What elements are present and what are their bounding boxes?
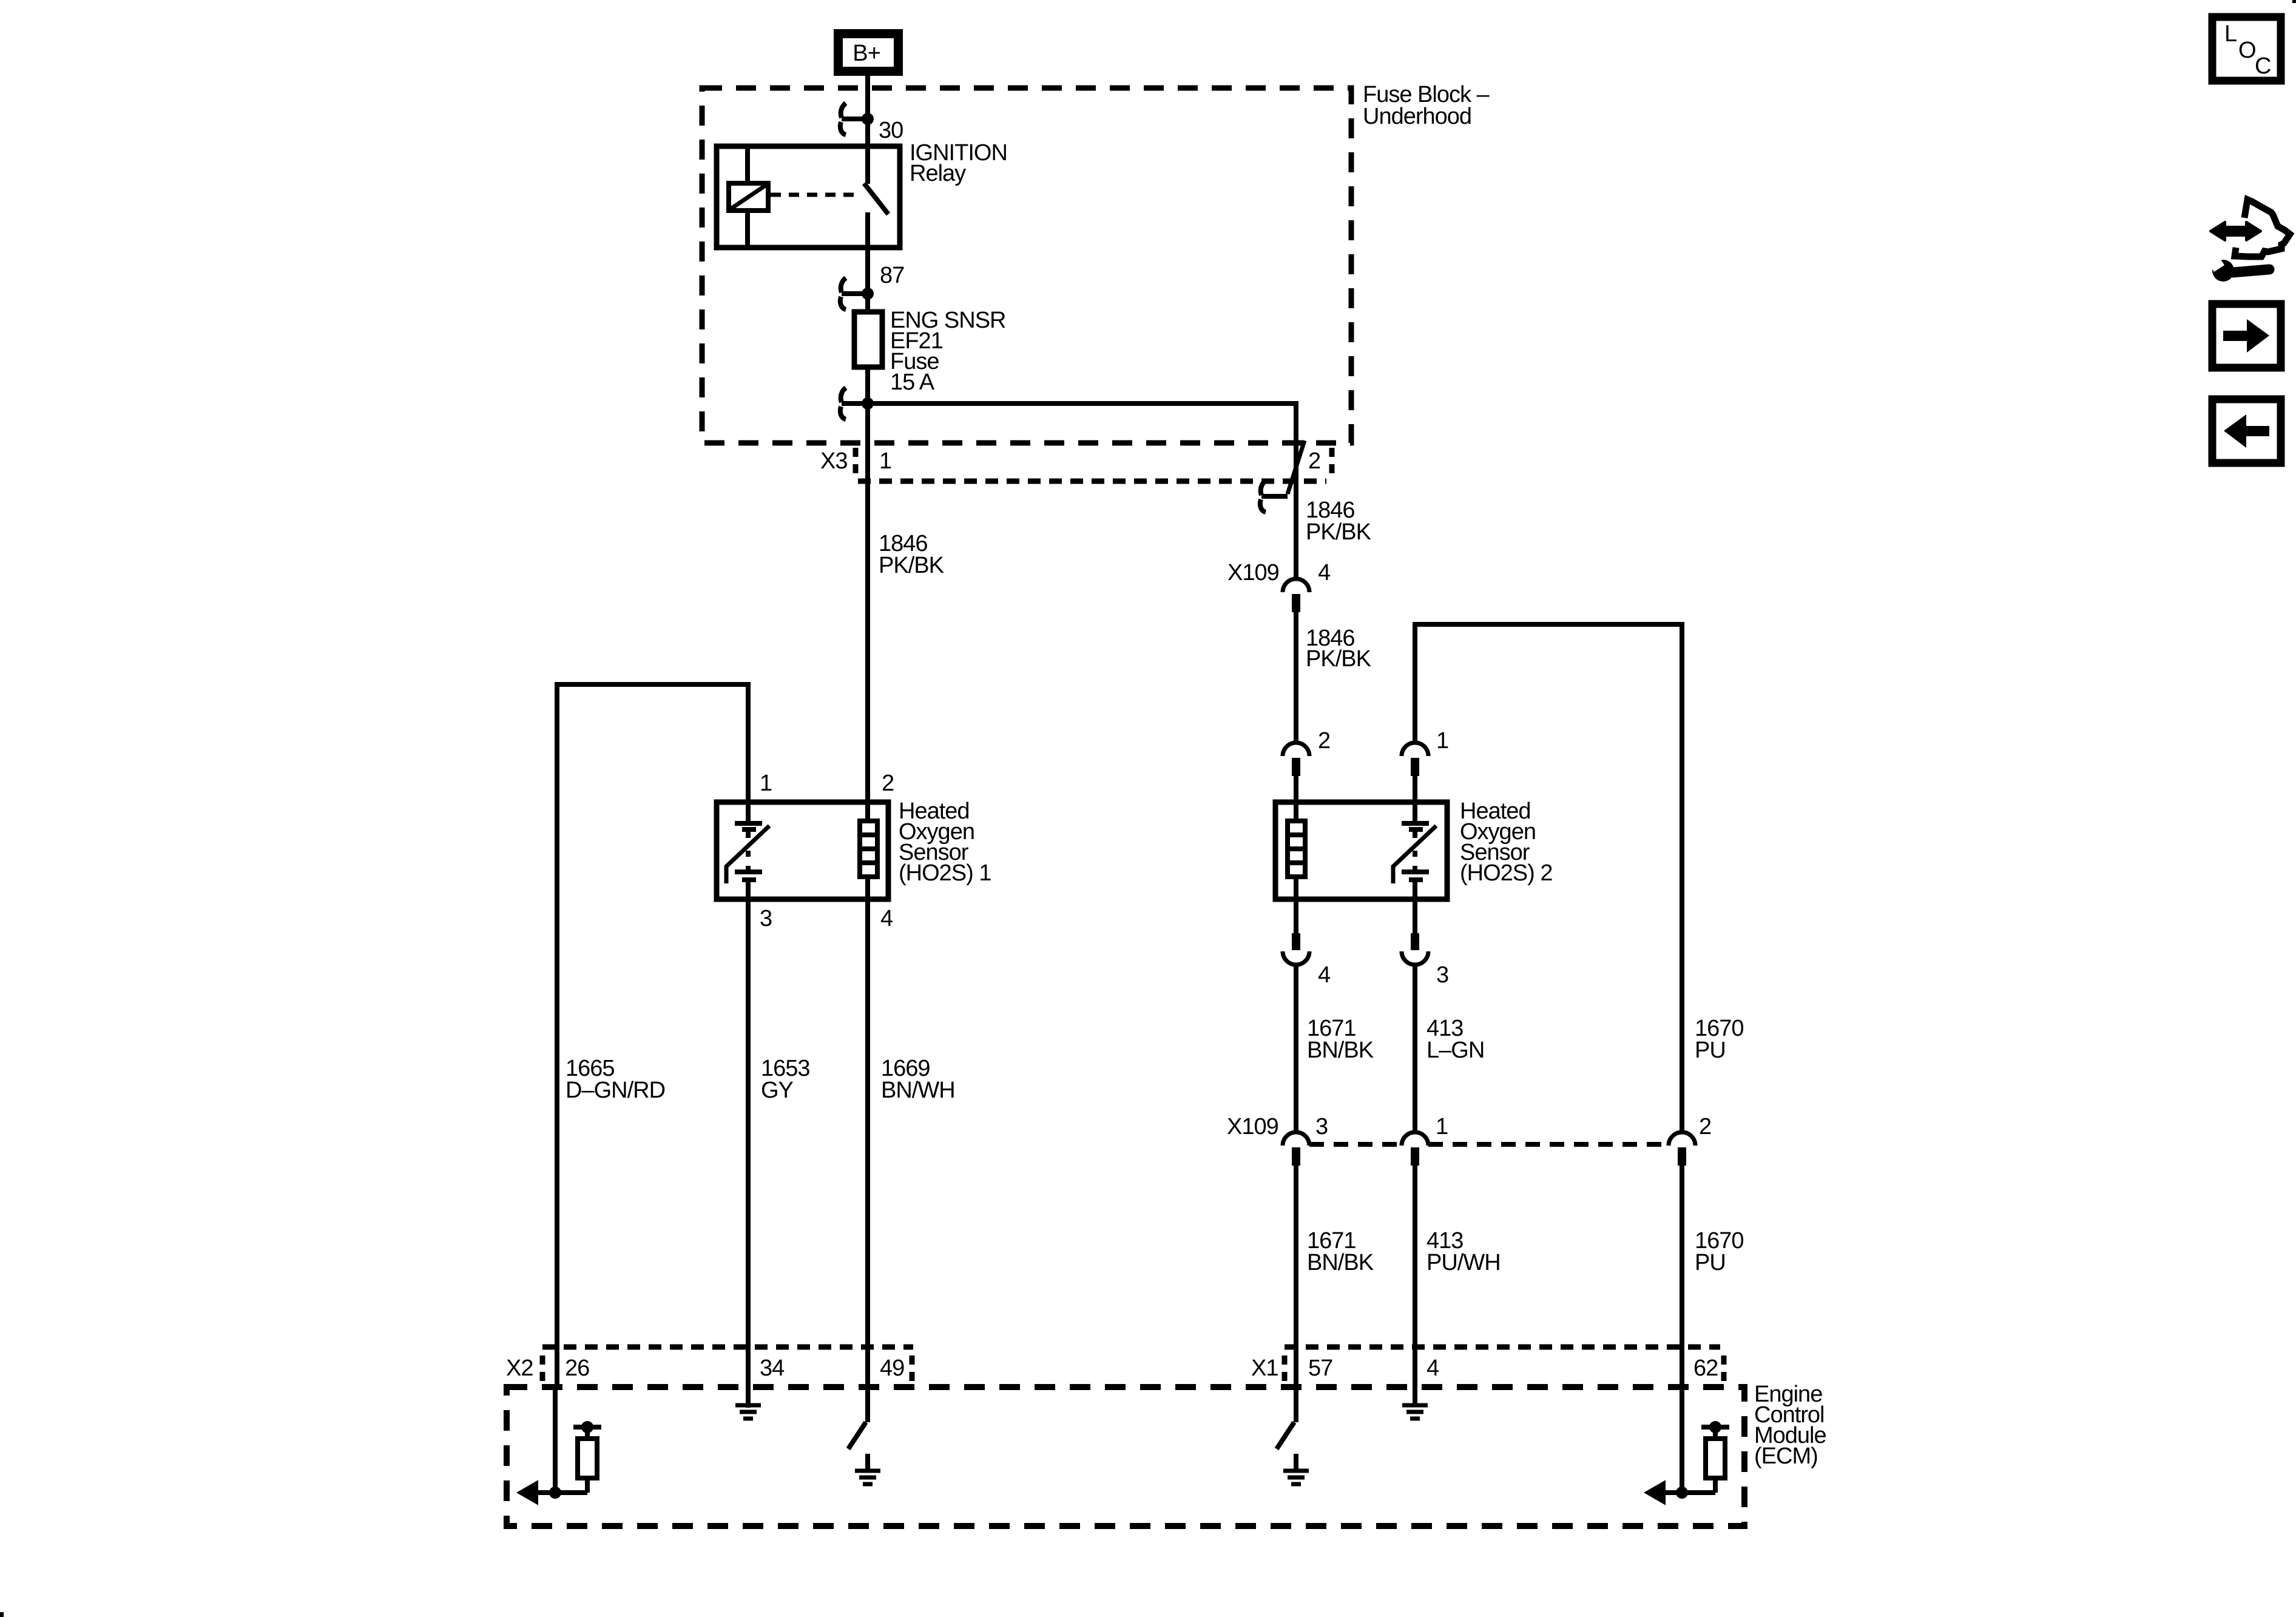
icon LOC box: [2212, 17, 2281, 81]
svg-text:15 A: 15 A: [890, 370, 935, 395]
ECM internal: X2-26 resistor and arrow: [518, 1387, 601, 1504]
wire 1671 upper: [1294, 964, 1298, 1132]
connector pair below HO2S2 pin 4: [1283, 899, 1309, 965]
clip at X3 pin 2: [1260, 481, 1288, 512]
svg-text:L: L: [2224, 21, 2237, 47]
sensor HO2S2 box: [1275, 802, 1447, 899]
svg-text:X109: X109: [1227, 560, 1279, 586]
svg-text:4: 4: [1427, 1355, 1439, 1381]
icon back arrow box: [2212, 399, 2281, 463]
svg-text:X3: X3: [820, 448, 847, 474]
svg-text:X1: X1: [1251, 1355, 1278, 1381]
svg-text:GY: GY: [761, 1078, 794, 1103]
wire fuse output: [865, 367, 870, 802]
ECM internal: ground at X2-34: [735, 1387, 761, 1419]
HO2S2 sensor cell element: [1393, 802, 1436, 899]
connector X2 strip: [542, 1347, 913, 1381]
svg-text:49: 49: [880, 1355, 904, 1381]
svg-text:57: 57: [1308, 1355, 1332, 1381]
connector X109 pin 4 pair: [1283, 579, 1309, 612]
connector pair below HO2S2 pin 3: [1402, 899, 1428, 965]
connector X109 pin 3 pair: [1283, 1132, 1309, 1166]
svg-text:Relay: Relay: [910, 161, 966, 186]
relay U1 IGNITION Relay box: [717, 146, 900, 248]
svg-text:BN/BK: BN/BK: [1307, 1250, 1374, 1275]
HO2S1 heater element: [860, 802, 877, 899]
fuse block - underhood dashed box: [702, 88, 1351, 443]
svg-text:B+: B+: [853, 41, 880, 66]
svg-text:X2: X2: [506, 1355, 533, 1381]
svg-text:4: 4: [1318, 560, 1331, 586]
relay coil feed line: [745, 146, 750, 248]
svg-text:(HO2S) 2: (HO2S) 2: [1460, 860, 1552, 886]
svg-text:C: C: [2255, 53, 2271, 79]
wire 1653 lower run: [746, 899, 751, 1408]
svg-text:PU: PU: [1695, 1250, 1726, 1275]
ECM internal: ground at X1-4: [1402, 1387, 1428, 1419]
svg-text:26: 26: [565, 1355, 589, 1381]
wire 1671 lower: [1294, 1166, 1298, 1422]
svg-text:PU: PU: [1695, 1038, 1726, 1063]
wire 413 lower: [1413, 1166, 1417, 1387]
HO2S2 heater element: [1288, 802, 1305, 899]
svg-text:1: 1: [760, 771, 772, 796]
wire 1670 lower: [1680, 1166, 1684, 1493]
svg-text:Underhood: Underhood: [1363, 104, 1471, 129]
relay coil: [729, 183, 768, 211]
svg-text:2: 2: [882, 771, 894, 796]
relay coil-to-contact dashed link: [771, 193, 862, 197]
sensor HO2S1 box: [717, 802, 888, 899]
icon diagnostics car and wrench: [2206, 200, 2290, 282]
wire B+ to relay pin 30: [865, 76, 870, 184]
fuse ENG SNSR EF21 15A: [854, 312, 882, 367]
svg-text:2: 2: [1699, 1114, 1711, 1139]
svg-text:3: 3: [760, 906, 772, 931]
connector pair at HO2S2 pin 1: [1402, 743, 1428, 776]
battery feed B+: [834, 29, 903, 76]
HO2S1 sensor cell element: [726, 802, 769, 899]
wire 413 upper: [1413, 964, 1417, 1132]
svg-text:34: 34: [760, 1355, 785, 1381]
ECM internal: switch to ground at X2-49: [848, 1422, 880, 1484]
node 87 junction with clip: [840, 278, 868, 309]
svg-text:4: 4: [1318, 962, 1331, 988]
wire left branch 1665 horizontal: [557, 684, 748, 1387]
svg-text:30: 30: [879, 118, 903, 143]
wire stubs into HO2S2: [1296, 776, 1415, 802]
svg-text:2: 2: [1308, 448, 1320, 474]
svg-text:1: 1: [1436, 1114, 1448, 1139]
wire 1669 lower run: [865, 899, 870, 1422]
svg-text:1: 1: [879, 448, 891, 474]
relay switch blade: [864, 183, 888, 214]
connector X109 lower dashed line: [1309, 1142, 1669, 1147]
wire branch to X3 pin 2: [868, 403, 1296, 579]
connector X109 pin 2 pair: [1669, 1132, 1695, 1166]
svg-text:1: 1: [1436, 728, 1448, 754]
svg-text:3: 3: [1436, 962, 1448, 988]
svg-text:PU/WH: PU/WH: [1427, 1250, 1501, 1275]
svg-text:PK/BK: PK/BK: [879, 553, 944, 578]
svg-text:BN/WH: BN/WH: [881, 1078, 955, 1103]
ECM internal: X1-62 resistor and arrow: [1645, 1421, 1729, 1504]
svg-text:87: 87: [880, 263, 904, 288]
page artifact dot top right: [2292, 0, 2296, 3]
wire pass-through slash at X3 pin 2: [1288, 441, 1305, 494]
svg-text:4: 4: [880, 906, 893, 931]
svg-text:(HO2S) 1: (HO2S) 1: [899, 860, 991, 886]
svg-text:2: 2: [1318, 728, 1330, 754]
svg-text:O: O: [2238, 38, 2256, 63]
ECM dashed box: [507, 1387, 1744, 1526]
svg-text:L–GN: L–GN: [1427, 1038, 1484, 1063]
wire X109-4 to HO2S2 pin 2: [1294, 612, 1298, 743]
svg-text:3: 3: [1315, 1114, 1328, 1139]
wire HO2S2 pin 1 top run: [1415, 624, 1682, 1132]
svg-text:PK/BK: PK/BK: [1306, 519, 1371, 545]
connector X109 pin 1 pair: [1402, 1132, 1428, 1166]
ECM internal: switch to ground at X1-57: [1277, 1422, 1309, 1484]
svg-text:D–GN/RD: D–GN/RD: [566, 1078, 665, 1103]
wire relay pin 87 to fuse: [865, 212, 870, 312]
svg-text:PK/BK: PK/BK: [1306, 646, 1371, 672]
icon forward arrow box: [2212, 304, 2281, 368]
node fuse output junction with clip: [840, 388, 868, 419]
connector pair at HO2S2 pin 2: [1283, 743, 1309, 776]
svg-text:X109: X109: [1227, 1114, 1278, 1139]
svg-text:(ECM): (ECM): [1754, 1443, 1818, 1469]
connector X1 strip: [1285, 1347, 1724, 1381]
page artifact dot bottom left: [0, 1612, 4, 1617]
svg-text:62: 62: [1693, 1355, 1718, 1381]
svg-text:BN/BK: BN/BK: [1307, 1038, 1374, 1063]
node pin 30 junction with clip: [840, 103, 868, 135]
connector X3 strip: [856, 448, 1332, 481]
